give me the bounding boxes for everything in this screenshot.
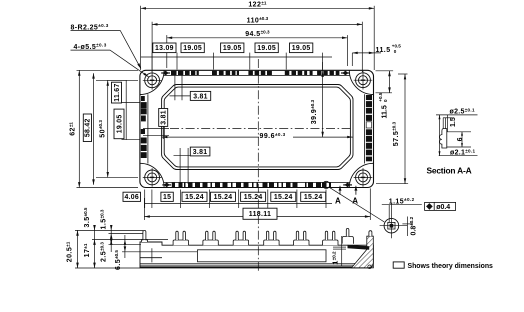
- feature control frame: [425, 202, 456, 210]
- svg-text:6: 6: [457, 137, 464, 141]
- dim 122 line: [141, 7, 375, 9]
- svg-text:11.5: 11.5: [376, 47, 391, 54]
- baseplate curl: [368, 265, 372, 269]
- pin detail circle: [380, 203, 408, 238]
- svg-text:15.24: 15.24: [244, 194, 263, 201]
- boxed dim 19.05 left: [114, 109, 124, 139]
- sectioned pin circle: [323, 181, 330, 188]
- legend box: [393, 262, 404, 268]
- mounting hole TL: [143, 71, 162, 90]
- dim 1.5/2.5 line: [110, 226, 112, 252]
- top-right index pin (diamond): [342, 71, 348, 76]
- svg-text:ø0.4: ø0.4: [436, 204, 450, 211]
- svg-text:1.5: 1.5: [450, 117, 457, 127]
- top terminal pins row: [171, 71, 339, 76]
- left pin band line: [147, 94, 149, 163]
- dim 39.9 line: [322, 62, 324, 137]
- lid outline outer: [162, 85, 353, 170]
- dim 118.11: [144, 188, 370, 220]
- dim 94.5 extension lines: [167, 35, 348, 68]
- svg-text:3.81: 3.81: [161, 110, 168, 125]
- dim 3.8 left box leaders: [143, 126, 169, 139]
- bottom pin band line: [164, 181, 351, 183]
- boxed dim 19.05 #1: [181, 43, 204, 53]
- svg-text:15.24: 15.24: [274, 194, 293, 201]
- svg-text:15: 15: [163, 194, 171, 201]
- dim 50 ext bottom: [96, 176, 138, 178]
- section A-A pin profile: [440, 118, 452, 148]
- top-left index pin (diamond): [163, 71, 169, 76]
- dim o2.1: [439, 155, 478, 157]
- dim 11.5 right text: [378, 92, 389, 118]
- vertical centerline: [257, 59, 259, 273]
- svg-text:0: 0: [383, 99, 388, 102]
- left control pins column: [141, 96, 147, 158]
- svg-text:+0.5: +0.5: [378, 92, 383, 102]
- dim 110 line: [152, 23, 362, 25]
- boxed dim 15.24 #3: [241, 192, 266, 201]
- mounting hole TR: [354, 71, 373, 90]
- side view body: [140, 242, 373, 268]
- side dim extension lines: [75, 230, 197, 268]
- dim 3.81 top leaders: [170, 76, 191, 101]
- dim 62 left: [77, 70, 139, 187]
- dim 6.5 line: [124, 235, 126, 258]
- boxed dim 3.81 left (rotated): [159, 109, 168, 127]
- svg-text:58.42: 58.42: [85, 118, 92, 137]
- svg-text:15.24: 15.24: [214, 194, 233, 201]
- dim 58.42 line: [93, 73, 95, 185]
- top pitch chain ticks: [152, 53, 323, 70]
- dim 99.6 line: [162, 136, 353, 138]
- svg-text:3.81: 3.81: [193, 93, 208, 100]
- svg-text:Section A-A: Section A-A: [427, 166, 472, 176]
- boxed dim 11.67: [112, 82, 122, 103]
- dim 11.5 top-right: [352, 53, 381, 66]
- ear arc bottom-left: [140, 163, 164, 187]
- mounting hole BR: [354, 168, 373, 187]
- dim 1.5 section: [447, 115, 449, 132]
- side view right pin: [369, 231, 372, 237]
- svg-text:15.24: 15.24: [185, 194, 204, 201]
- boxed dim 3.81 top: [190, 91, 210, 100]
- ear arc top-right: [349, 70, 373, 94]
- svg-text:0: 0: [394, 49, 397, 54]
- dim 1 line: [333, 236, 346, 266]
- dim 50 line: [107, 80, 109, 177]
- svg-text:19.05: 19.05: [292, 45, 311, 52]
- svg-text:15.24: 15.24: [304, 194, 323, 201]
- dim 11.5 right: [376, 71, 394, 93]
- boxed dim 19.05 #4: [290, 43, 313, 53]
- left pitch chain: [108, 80, 140, 139]
- svg-text:Shows theory dimensions: Shows theory dimensions: [408, 263, 494, 270]
- boxed dim 19.05 #3: [255, 43, 278, 53]
- dim 3.5/17 line: [94, 226, 96, 268]
- bottom terminal pins row: [172, 183, 331, 188]
- boxed dim 19.05 #2: [221, 43, 244, 53]
- svg-text:19.05: 19.05: [223, 45, 242, 52]
- dim 1.15: [382, 204, 422, 206]
- side view section pin block: [342, 228, 353, 243]
- boxed dim 15.24 #1: [182, 192, 207, 201]
- side view left pin: [141, 230, 147, 242]
- bottom pitch chain: [145, 190, 332, 209]
- boxed dim 15.24 #4: [271, 192, 296, 201]
- lid outline inner: [164, 87, 350, 167]
- mounting hole BL: [143, 168, 162, 187]
- horizontal centerline: [170, 128, 352, 130]
- dim 99.6 text: [259, 132, 293, 139]
- boxed dim 4.06: [123, 192, 141, 201]
- ear arc bottom-right: [349, 163, 373, 187]
- svg-text:+0.5: +0.5: [392, 44, 402, 49]
- boxed dim 13.09: [153, 43, 176, 53]
- right control pins column: [366, 95, 372, 161]
- bottom-right index pin (diamond): [345, 183, 351, 188]
- side view label recess: [198, 250, 327, 262]
- boxed dim 15.24 #2: [211, 192, 236, 201]
- side view section hatch: [348, 236, 374, 268]
- dim 122 extension lines: [141, 6, 375, 70]
- dim 6 section: [447, 132, 471, 147]
- ear arc top-left: [140, 70, 164, 94]
- dim 110 extension lines: [152, 22, 362, 72]
- svg-text:19.05: 19.05: [257, 45, 276, 52]
- boxed dim 15.24 #5: [301, 192, 326, 201]
- dim 57.5 right: [376, 74, 408, 184]
- svg-text:11.67: 11.67: [114, 83, 121, 101]
- svg-text:19.05: 19.05: [183, 45, 202, 52]
- dim 0.8: [402, 217, 412, 237]
- svg-text:A: A: [335, 197, 341, 206]
- boxed dim 58.42: [83, 114, 91, 142]
- side view pin housings and pins: [173, 231, 338, 245]
- svg-text:4.06: 4.06: [124, 194, 139, 201]
- boxed dim 118.11: [243, 208, 277, 219]
- dim 94.5 line: [167, 37, 348, 39]
- boxed dim 15: [161, 192, 173, 201]
- svg-text:19.05: 19.05: [116, 115, 123, 134]
- dim o2.5: [436, 115, 478, 156]
- boxed dim 3.81 bottom: [190, 147, 210, 156]
- right pin band line: [363, 94, 365, 163]
- bottom-left index pin (diamond): [164, 183, 170, 188]
- svg-text:3.81: 3.81: [193, 149, 208, 156]
- dim 3.81 bottom leaders: [174, 148, 191, 184]
- module outline (top view): [140, 70, 374, 187]
- svg-text:13.09: 13.09: [155, 45, 174, 52]
- dim 20.5 line: [77, 230, 79, 268]
- svg-text:11.5: 11.5: [382, 105, 389, 118]
- dim 50 ext top: [96, 79, 138, 81]
- top pin band line: [164, 74, 351, 76]
- leader to pin detail: [330, 188, 385, 222]
- svg-text:118.11: 118.11: [249, 211, 271, 218]
- top pitch chain line: [141, 56, 332, 58]
